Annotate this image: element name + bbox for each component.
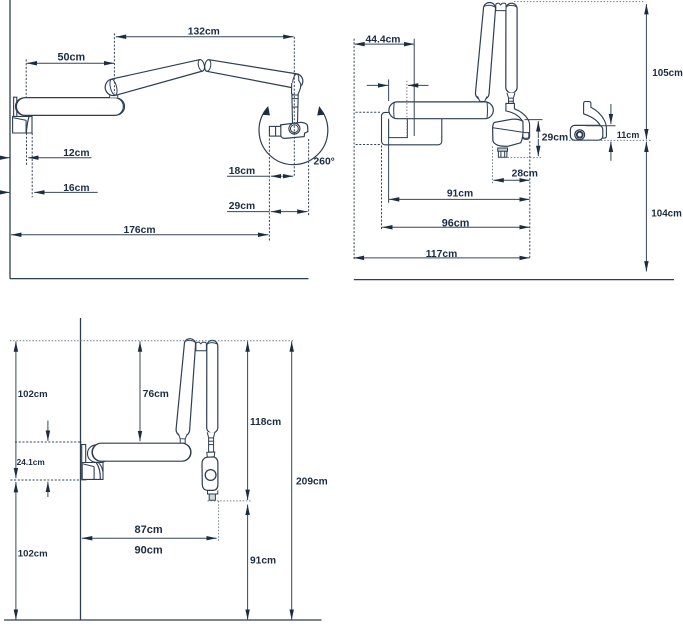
svg-text:117cm: 117cm	[426, 249, 458, 260]
tubehead circle	[205, 470, 216, 481]
holder ring outer	[575, 130, 585, 140]
bracket curved gusset	[26, 117, 29, 133]
svg-text:90cm: 90cm	[135, 544, 163, 556]
dotted ceiling line	[10, 340, 295, 342]
neck joint line	[508, 100, 514, 102]
head swivel inner circle	[291, 125, 299, 133]
ext solid x388.6 lower (91cm)	[388, 120, 390, 203]
svg-text:50cm: 50cm	[57, 51, 85, 63]
dotted ext head centre	[218, 501, 220, 541]
wall hint dotted bottom	[356, 144, 382, 146]
dotted head bottom line	[208, 500, 253, 502]
dim 44.4cm line	[354, 43, 414, 45]
svg-text:29cm: 29cm	[542, 132, 568, 143]
arc arrowhead right	[317, 106, 325, 115]
right segment foot	[507, 93, 515, 98]
upright left cap line	[185, 340, 196, 342]
small dim left arrow	[367, 84, 388, 86]
tubehead right tab	[523, 133, 529, 139]
wall plate	[82, 445, 86, 480]
dim 91cm line	[389, 198, 530, 200]
svg-text:118cm: 118cm	[250, 417, 281, 428]
wall line	[9, 0, 11, 279]
top connector between segments	[496, 3, 506, 10]
upright left foot cylinder	[180, 439, 185, 444]
upright arm right segment (vertical capsule)	[506, 3, 517, 93]
floor line right view	[354, 279, 674, 281]
ext dotted x406.7	[406, 81, 408, 138]
collimator gray band	[498, 148, 508, 151]
svg-text:11cm: 11cm	[617, 130, 640, 140]
top-right labels	[366, 35, 683, 261]
ext dashed left x354.1	[353, 39, 355, 261]
dim 11cm lower arrow	[610, 142, 612, 161]
horizontal arm capsule	[92, 443, 191, 461]
dim 87/90cm line	[82, 537, 217, 539]
svg-text:105cm: 105cm	[652, 68, 683, 79]
svg-text:102cm: 102cm	[18, 549, 48, 560]
bracket gusset inner curve	[98, 463, 102, 472]
upright left segment (tilted capsule)	[176, 339, 196, 437]
arm right cap line	[486, 102, 489, 118]
ext dashed line at shoulder x115	[113, 33, 115, 93]
cone tip (gray)	[209, 494, 215, 500]
holder ring inner (bold)	[577, 132, 583, 138]
svg-text:76cm: 76cm	[143, 389, 169, 400]
arc arrowhead left	[262, 106, 270, 115]
dashed ref bracket bottom	[10, 479, 80, 481]
holder body (rounded rect)	[570, 125, 602, 140]
dim 12cm: left outside arrow	[0, 157, 10, 159]
dim 29cm ref bottom dotted	[498, 157, 543, 159]
holder hook	[584, 102, 607, 139]
dotted junction line y140.4	[569, 139, 652, 141]
svg-text:44.4cm: 44.4cm	[366, 35, 401, 46]
dim 209cm	[291, 341, 293, 619]
ext dashed x308.6 (arc right)	[308, 139, 310, 216]
dim 118cm	[247, 341, 249, 500]
dim 16cm: right outside arrow + leader	[34, 191, 97, 193]
svg-text:87cm: 87cm	[135, 524, 163, 536]
floor line bottom view	[4, 619, 322, 621]
dim 24.1cm upper outside arrow	[47, 421, 49, 441]
dim 11cm upper arrow	[610, 104, 612, 124]
dim 12cm: right outside arrow + leader	[28, 157, 91, 159]
upright arm left segment (tilted capsule)	[475, 2, 495, 99]
dashed ref arm top	[15, 441, 82, 443]
collimator box	[498, 151, 507, 157]
svg-text:16cm: 16cm	[63, 183, 89, 194]
bracket inner slot	[389, 119, 408, 138]
floor line left view	[10, 278, 309, 280]
upright right cap line	[207, 343, 217, 345]
ext dashed line x26.3 upper	[25, 59, 27, 97]
tubehead diagonal seam	[493, 128, 523, 133]
tubehead (edge view)	[202, 457, 218, 491]
wall plate	[14, 97, 17, 133]
wrist rod joint lines	[209, 440, 214, 442]
bracket divider	[93, 467, 95, 480]
dim 96cm line	[382, 226, 530, 228]
ext dashed x269.4 (head left)	[268, 139, 270, 242]
collimator inner lines	[500, 151, 502, 157]
svg-text:176cm: 176cm	[123, 225, 155, 236]
svg-text:104cm: 104cm	[651, 208, 682, 219]
x-ray head body (plan)	[281, 122, 308, 138]
horizontal arm rear capsule	[88, 445, 110, 462]
apex cap B	[204, 59, 212, 71]
ext solid x414.2	[413, 39, 415, 136]
head left attachment block	[269, 126, 280, 136]
bottom-left labels	[17, 389, 328, 567]
dim 102cm top	[15, 341, 17, 478]
wall bracket below arm 1	[13, 116, 32, 133]
dim 76cm	[139, 341, 141, 441]
neck rod below right segment	[509, 98, 514, 103]
ext dashed x529.8	[529, 141, 531, 260]
svg-text:132cm: 132cm	[188, 27, 220, 38]
dim 117cm line	[354, 257, 530, 259]
swan neck into head	[506, 103, 530, 139]
dim 29cm arrows	[537, 121, 539, 138]
shoulder fork joint	[110, 88, 118, 98]
arm left cap line	[92, 444, 98, 461]
top-right dimensions	[354, 2, 652, 272]
svg-text:12cm: 12cm	[63, 148, 89, 159]
tubehead bottom block	[208, 490, 218, 494]
260 deg rotation arc	[259, 107, 328, 164]
bracket divider	[25, 120, 27, 133]
bracket lip line	[13, 118, 26, 121]
dim 132cm line	[116, 36, 294, 38]
shoulder cap ellipse	[109, 79, 119, 96]
upright right segment (vertical capsule)	[207, 340, 218, 433]
dim 102cm bottom	[15, 482, 17, 620]
arm 2 segment B (apex to elbow)	[205, 60, 303, 89]
small dim right arrow	[408, 84, 429, 86]
ext dashed line x26.5 lower (to 12cm)	[26, 133, 28, 166]
dim 28cm line	[493, 179, 529, 181]
svg-text:18cm: 18cm	[229, 166, 255, 177]
wrist fork	[207, 452, 215, 457]
wall hint dotted top	[356, 111, 382, 113]
ext dotted x492.5	[492, 147, 494, 184]
top connector	[196, 342, 207, 351]
dim 91cm vertical	[247, 505, 249, 620]
head swivel outer circle	[289, 123, 300, 134]
bracket lip line	[83, 464, 94, 467]
svg-text:29cm: 29cm	[229, 201, 255, 212]
horizontal arm capsule	[389, 102, 493, 119]
arm 2 segment A (shoulder to apex)	[105, 60, 204, 96]
arm left cap line	[393, 102, 396, 118]
dim 29cm ref top	[525, 119, 543, 121]
dim 24.1cm lower outside arrow	[47, 482, 49, 497]
dim 50cm line	[27, 62, 115, 64]
dim 104cm vertical	[645, 142, 647, 272]
apex cap A	[197, 59, 205, 72]
wrist link joint lines	[292, 98, 298, 100]
ext dashed center line of head x294.3	[293, 37, 295, 176]
svg-text:28cm: 28cm	[512, 169, 538, 180]
arm 1 left end cap line	[15, 98, 22, 115]
dim 16cm: left outside arrow	[0, 191, 10, 193]
wrist rod	[209, 438, 214, 452]
dim 176cm line	[11, 234, 268, 236]
left segment cap line	[484, 5, 496, 7]
dotted top line to 105cm	[514, 1, 646, 3]
svg-text:260°: 260°	[314, 157, 335, 168]
dim 29cm leader + outward arrows	[227, 211, 270, 213]
dim 18cm leader + outward arrows	[227, 175, 270, 177]
wall bracket	[82, 463, 103, 480]
elbow hook	[292, 81, 301, 96]
right segment cap line	[506, 5, 517, 7]
arm 1 capsule (horizontal)	[16, 98, 123, 116]
attachment divider	[275, 126, 277, 136]
svg-text:24.1cm: 24.1cm	[17, 457, 45, 467]
svg-text:91cm: 91cm	[447, 189, 473, 200]
dim 105cm vertical	[645, 4, 647, 139]
dim 11cm ref line	[586, 125, 616, 127]
top-left dimensions	[0, 33, 309, 241]
svg-text:91cm: 91cm	[250, 556, 276, 567]
tubehead body	[493, 119, 523, 146]
svg-text:96cm: 96cm	[442, 217, 470, 229]
bracket curved gusset	[96, 463, 100, 480]
svg-text:209cm: 209cm	[296, 477, 328, 488]
right segment foot	[207, 432, 215, 438]
ext dashed x381.5	[381, 146, 383, 230]
wall line bottom view	[80, 318, 82, 620]
arm right cap line	[185, 444, 191, 461]
ext dashed line x32.2 (to 16cm)	[31, 133, 33, 197]
left segment foot	[478, 96, 487, 101]
top-left labels	[57, 27, 334, 236]
wall bracket (rounded)	[382, 112, 442, 144]
bottom-left dimensions	[10, 341, 295, 620]
svg-text:102cm: 102cm	[18, 389, 48, 400]
upright left foot	[178, 434, 187, 439]
ext solid x388.6 upper	[388, 79, 390, 101]
elbow cap ellipse	[292, 74, 300, 89]
arm 1 right end cap line	[119, 98, 125, 115]
vertical wrist link	[292, 95, 298, 124]
